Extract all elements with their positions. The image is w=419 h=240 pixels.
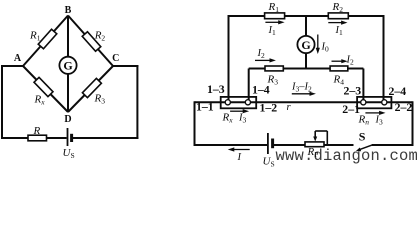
svg-text:1–4: 1–4 — [252, 83, 270, 97]
arrow I3-I2 — [292, 92, 316, 96]
wire bottom left — [1, 137, 67, 139]
arrow under Rx box — [230, 109, 249, 113]
resistor R2 — [82, 32, 101, 52]
wire left vertical (1-3 branch) — [228, 15, 230, 100]
resistor R — [28, 135, 47, 141]
wire 1-4 stub — [248, 69, 250, 100]
resistor R3 — [82, 78, 101, 97]
svg-text:1–1: 1–1 — [196, 99, 214, 113]
rheostat RP box — [305, 142, 324, 147]
wire top rail — [229, 15, 384, 17]
wire left vertical — [1, 65, 3, 139]
wire A-D diagonal — [23, 66, 68, 112]
wire B to galvanometer — [67, 16, 69, 58]
wire bottom right — [73, 137, 138, 139]
svg-text:D: D — [64, 114, 71, 125]
wire bottom left segment — [195, 144, 268, 146]
svg-text:R: R — [33, 125, 41, 137]
wire top to galvanometer — [305, 16, 307, 36]
switch S blade — [360, 145, 373, 150]
terminal 1-3 circle — [225, 100, 230, 105]
galvanometer G (right) — [297, 36, 314, 53]
arrow I0 — [316, 35, 320, 55]
resistor R3 (right middle) — [265, 66, 283, 71]
wire B-C diagonal — [68, 16, 113, 67]
svg-text:1–2: 1–2 — [260, 101, 278, 115]
resistor R2 (right top) — [328, 13, 348, 19]
wire bottom middle segment — [274, 144, 354, 146]
battery US plates (right) — [268, 133, 273, 154]
svg-text:www.diangon.com: www.diangon.com — [276, 147, 419, 165]
svg-text:A: A — [14, 53, 22, 64]
wire C-D diagonal — [68, 66, 113, 112]
wire A to left rail — [2, 65, 23, 67]
wire middle row — [249, 68, 364, 70]
svg-text:C: C — [112, 53, 119, 64]
arrow I (bottom, pointing left) — [228, 147, 250, 151]
terminal box Rx (four-terminal) — [221, 97, 257, 108]
svg-text:I: I — [237, 152, 242, 163]
wire rail right vertical — [412, 101, 414, 146]
svg-text:1–3: 1–3 — [207, 82, 225, 96]
rheostat RP wiper arrow — [315, 131, 327, 145]
galvanometer G (left) — [59, 57, 76, 74]
terminal 1-4 circle — [245, 100, 250, 105]
svg-text:G: G — [301, 38, 310, 52]
svg-text:2–4: 2–4 — [389, 84, 407, 98]
svg-text:S: S — [359, 129, 366, 143]
arrow I1 left — [265, 20, 284, 24]
wire galvanometer to middle row — [305, 53, 307, 69]
wire right vertical — [136, 65, 138, 139]
resistor R1 (right top) — [265, 13, 285, 19]
wire B-A diagonal — [23, 16, 68, 67]
battery Us plates (left) — [68, 128, 72, 146]
terminal 2-3 circle — [361, 100, 366, 105]
wire C to right rail — [113, 65, 138, 67]
wire right vertical (2-4 branch) — [383, 15, 385, 100]
wire galvanometer to D — [67, 74, 69, 112]
arrow under Rn box — [365, 111, 385, 115]
svg-text:B: B — [65, 5, 72, 16]
wire bottom right segment — [372, 144, 413, 146]
resistor Rx — [34, 77, 53, 96]
arrow I1 right — [328, 21, 347, 25]
wire 2-3 stub — [362, 69, 364, 100]
arrow I2 left — [255, 58, 276, 62]
resistor R1 — [38, 29, 57, 49]
svg-text:2–1: 2–1 — [342, 102, 360, 116]
svg-text:G: G — [63, 59, 72, 73]
wire rail left vertical — [194, 101, 196, 146]
arrow I2 right — [332, 59, 348, 63]
terminal 2-4 circle — [382, 100, 387, 105]
resistor R4 (right middle) — [330, 66, 348, 71]
terminal box Rn (four-terminal) — [357, 97, 391, 108]
wire main rail — [195, 101, 413, 103]
svg-text:2–3: 2–3 — [344, 83, 362, 97]
svg-text:2–2: 2–2 — [395, 100, 413, 114]
